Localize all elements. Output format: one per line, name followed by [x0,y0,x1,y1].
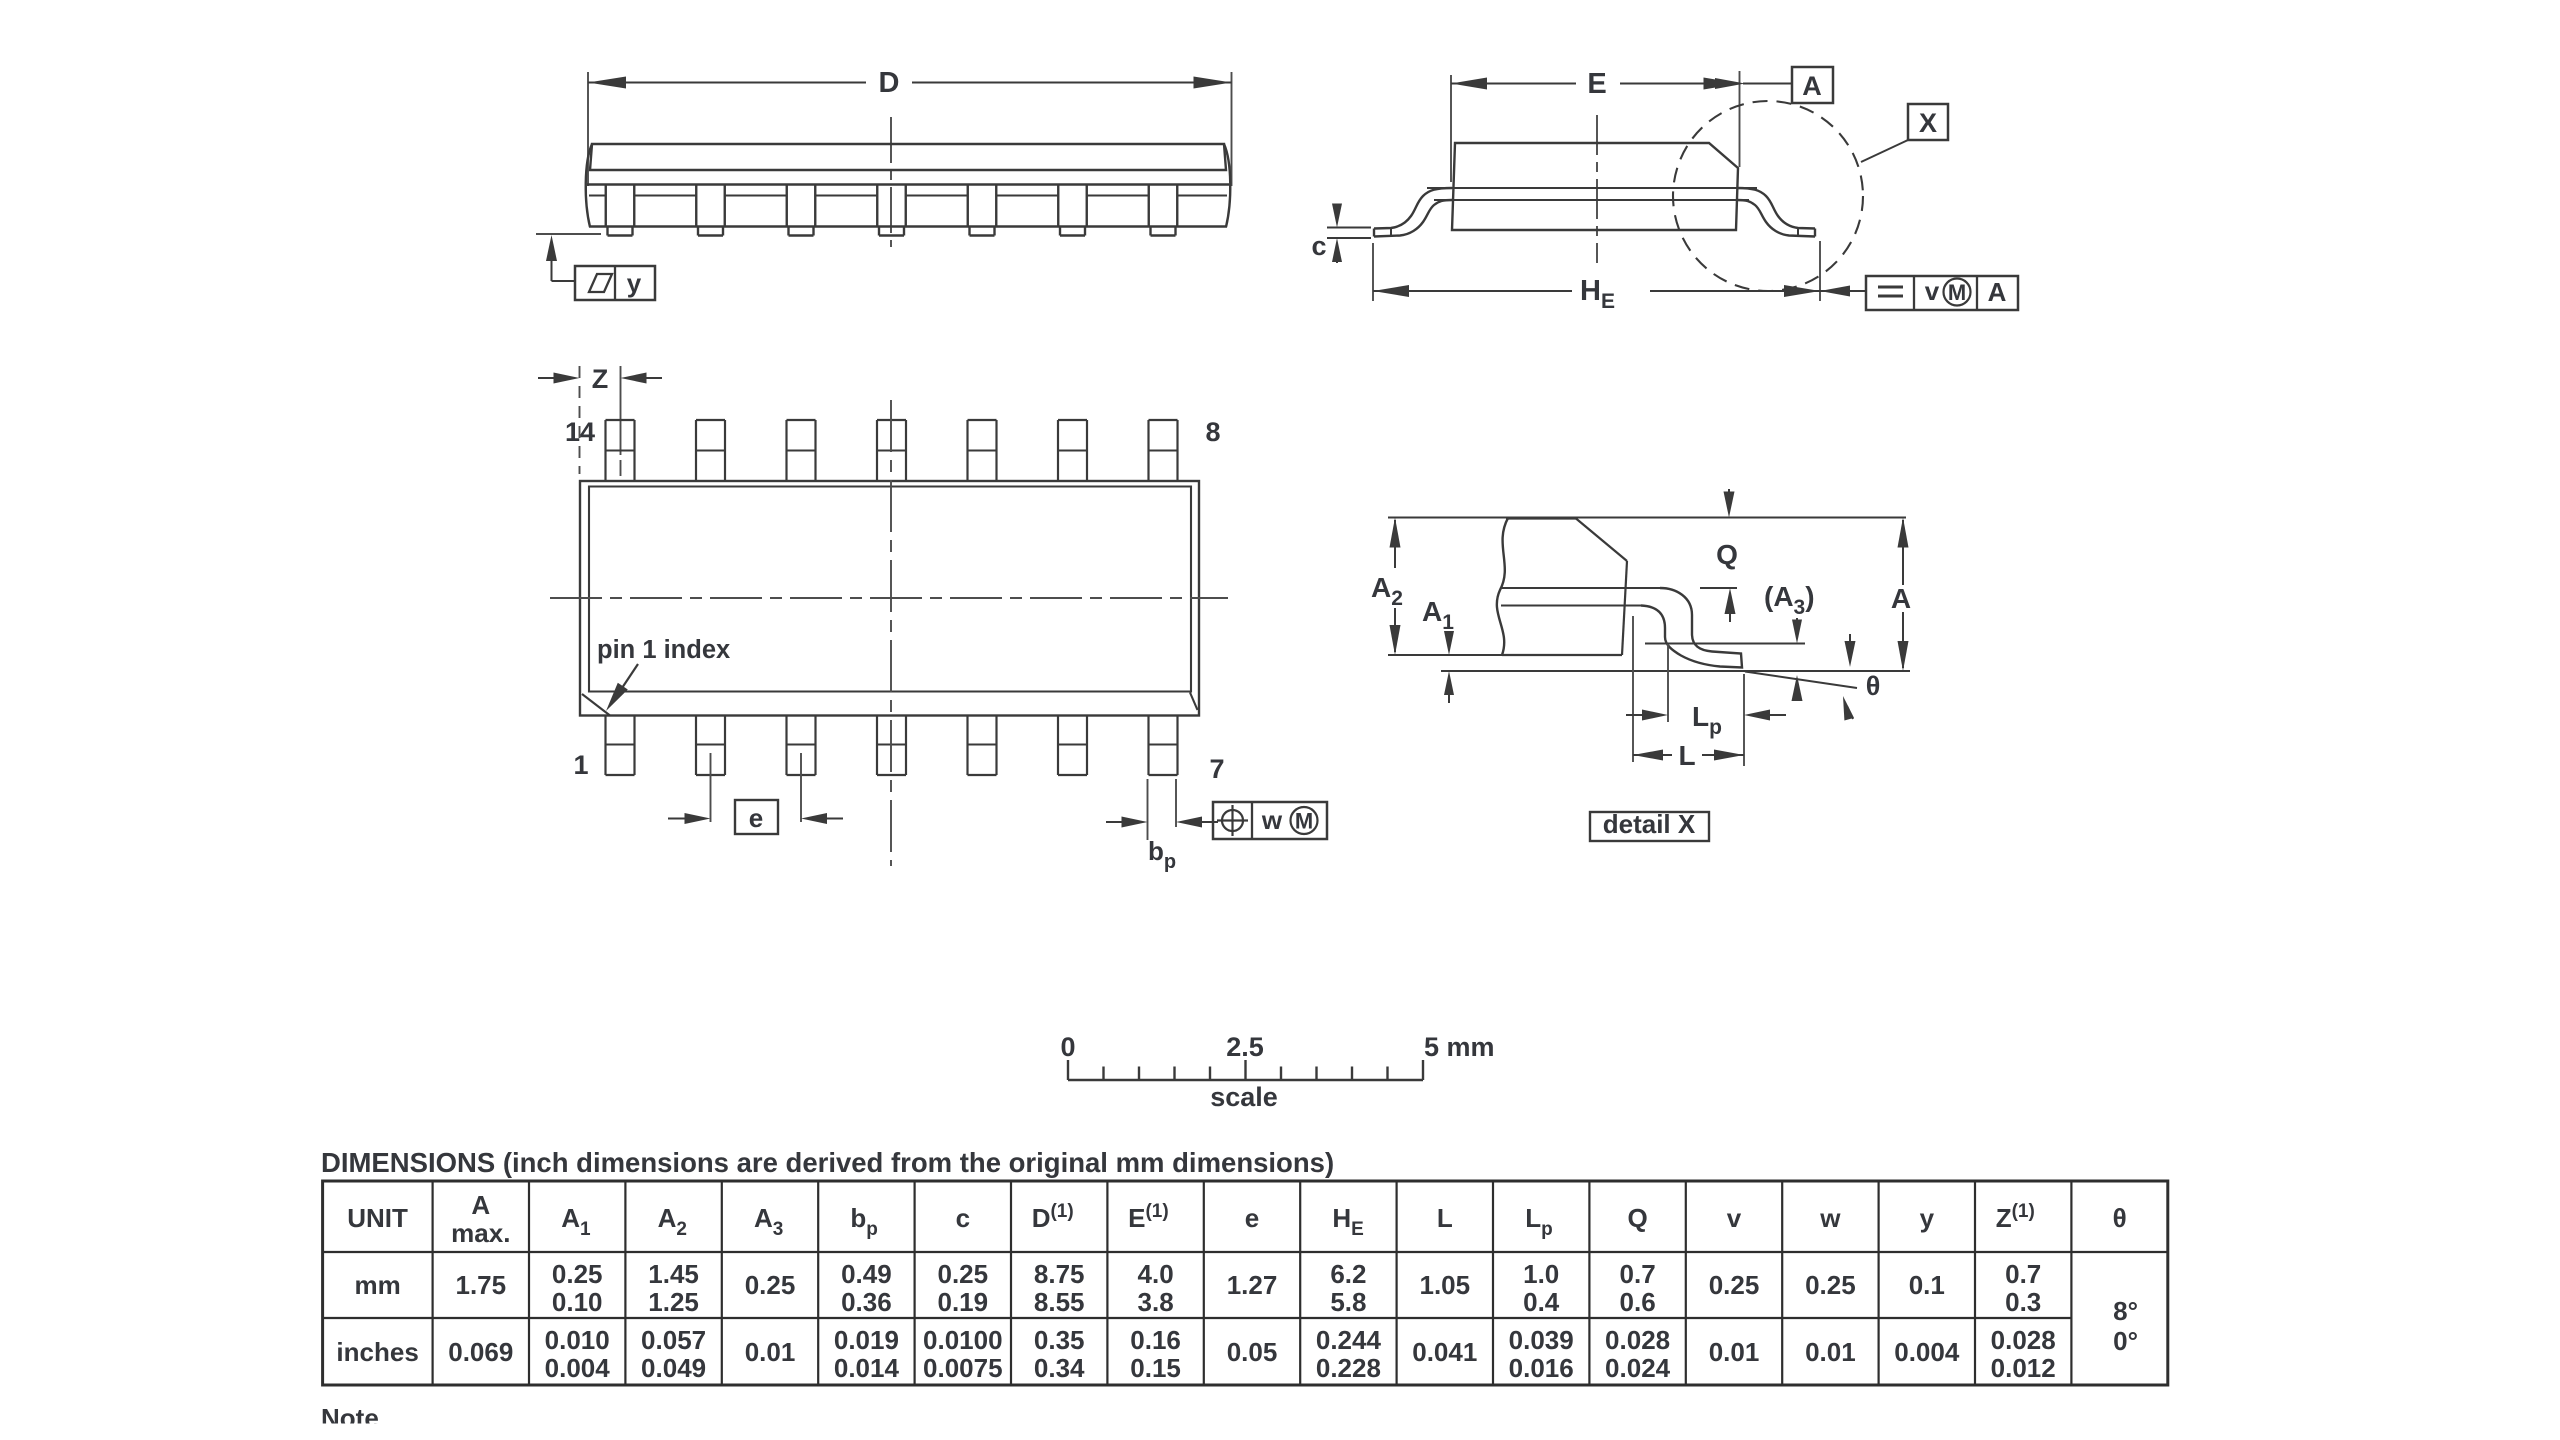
svg-text:0.069: 0.069 [448,1337,513,1367]
svg-text:1.75: 1.75 [455,1270,506,1300]
svg-text:0.01: 0.01 [1709,1337,1760,1367]
top view: top pin 10 [966,420,968,481]
end view: HE left extension line [1372,243,1374,301]
end view: datum A leader line [1743,83,1792,85]
svg-text:0.6: 0.6 [1620,1287,1656,1317]
detail X: A dimension line [1902,520,1904,585]
detail X: Q reference line extension [1700,587,1737,589]
svg-text:0.25: 0.25 [1805,1270,1856,1300]
end view: lead frame upper line [1427,187,1757,189]
svg-text:0.0075: 0.0075 [923,1353,1003,1383]
side view: D dimension line with arrowheads [588,82,866,84]
svg-text:Q: Q [1716,539,1738,570]
detail X: body top edge [1506,517,1576,519]
detail X: L extension line left [1632,616,1634,762]
svg-text:A: A [1988,277,2007,307]
svg-text:0.004: 0.004 [545,1353,611,1383]
detail X: arrow to seating plane [1849,634,1851,652]
svg-text:0.014: 0.014 [834,1353,900,1383]
svg-text:c: c [956,1203,970,1233]
svg-text:D: D [879,67,900,99]
svg-text:θ: θ [2113,1203,2127,1233]
svg-text:8: 8 [1205,417,1220,447]
svg-text:8.75: 8.75 [1034,1259,1085,1289]
svg-text:e: e [749,803,763,833]
detail X: lead outline (bend and foot) [1641,588,1742,668]
detail X: body bottom reference line [1388,654,1622,656]
detail X: Lp extension line left [1667,644,1669,722]
svg-text:0.028: 0.028 [1605,1325,1670,1355]
top view: body outer rectangle [580,481,1199,716]
svg-text:0.01: 0.01 [745,1337,796,1367]
svg-text:0.244: 0.244 [1316,1325,1382,1355]
detail X: Q upper arrow [1728,489,1730,505]
top view: e label box [735,800,778,834]
detail X: L dimension line [1633,750,1663,761]
top view: top pin 12 [785,420,787,481]
svg-text:E: E [1587,68,1606,100]
detail X: A1 dimension arrows [1448,633,1450,644]
svg-text:8°: 8° [2113,1296,2138,1326]
detail X: body right edge [1622,561,1627,655]
svg-text:max.: max. [451,1218,510,1248]
svg-text:L: L [1437,1203,1453,1233]
svg-text:θ: θ [1866,671,1881,701]
end view: HE dimension line [1373,290,1572,292]
svg-text:0.3: 0.3 [2005,1287,2041,1317]
top view: top pin 9 [1057,420,1059,481]
side view: lead shoulder line segments [589,195,606,197]
scale bar baseline [1068,1079,1423,1081]
top view: bp extension lines [1147,779,1149,840]
detail X: lead upper line in body [1501,587,1660,589]
end view: E dimension left extension line [1450,75,1452,182]
side view: lead 6 [1057,185,1059,227]
side view: package body top band (trapezoid) [590,144,1226,170]
detail X: arrow up to sloped line [1792,675,1803,701]
svg-text:M: M [1948,280,1966,305]
side view: body right end profile [1224,144,1230,227]
svg-text:0.35: 0.35 [1034,1325,1085,1355]
top view: bottom pin 6 [1057,716,1059,776]
top view: Z dimension right extension line [620,366,622,455]
detail X: seating plane line [1441,670,1910,672]
svg-text:0.028: 0.028 [1991,1325,2056,1355]
svg-text:y: y [627,268,642,298]
end view: body outline [1452,143,1738,230]
svg-text:0.34: 0.34 [1034,1353,1085,1383]
side view: seating datum line for y [536,233,601,235]
svg-text:c: c [1311,231,1326,261]
end view: datum A box [1792,67,1833,103]
detail X: slanted arrow below theta line [1847,706,1853,719]
top view: body inner rectangle [589,487,1191,692]
scale bar ticks [1067,1060,1069,1080]
svg-text:A: A [471,1190,490,1220]
svg-text:0.25: 0.25 [745,1270,796,1300]
svg-text:bp: bp [1148,836,1176,873]
top view: e dimension arrows [668,818,698,820]
svg-text:Lp: Lp [1692,701,1722,739]
svg-text:A1: A1 [561,1203,591,1240]
detail X: body bottom edge [1502,654,1622,656]
svg-text:UNIT: UNIT [347,1203,408,1233]
svg-text:0.10: 0.10 [552,1287,603,1317]
svg-text:Lp: Lp [1525,1203,1553,1240]
top view: e dimension extension lines [710,753,712,822]
end view: vertical centerline [1596,115,1598,263]
detail X: L/Lp extension line right [1743,674,1745,766]
top view: pin1 corner bevel [582,694,610,716]
detail X: package top reference line [1388,517,1906,519]
side view: D dimension right extension line [1231,72,1233,186]
svg-text:3.8: 3.8 [1138,1287,1174,1317]
end view: left lead (gull wing) [1374,188,1452,229]
top view: bottom pin 1 [604,716,606,776]
top view: bp dimension arrows [1106,821,1135,823]
svg-text:2.5: 2.5 [1226,1032,1264,1062]
detail X: (A3) arrow [1796,618,1798,631]
svg-text:A2: A2 [658,1203,687,1240]
svg-text:Q: Q [1627,1203,1647,1233]
svg-text:e: e [1245,1203,1259,1233]
side view: lead 5 [967,185,969,227]
svg-text:0.15: 0.15 [1130,1353,1181,1383]
svg-text:Z(1): Z(1) [1996,1201,2035,1233]
svg-text:0.16: 0.16 [1130,1325,1181,1355]
svg-text:0.019: 0.019 [834,1325,899,1355]
svg-text:5 mm: 5 mm [1424,1032,1495,1062]
end view: E dimension line with arrowheads [1451,83,1576,85]
svg-text:0.01: 0.01 [1805,1337,1856,1367]
svg-text:w: w [1819,1203,1841,1233]
top view: circled M for w [1291,807,1318,834]
svg-text:0: 0 [1060,1032,1075,1062]
side view: vertical centerline [890,117,892,247]
svg-text:7: 7 [1209,754,1224,784]
svg-text:scale: scale [1210,1082,1278,1112]
top view: pin7 corner bevel [1190,693,1198,711]
svg-text:D(1): D(1) [1032,1201,1074,1233]
svg-text:1: 1 [573,750,588,780]
svg-text:HE: HE [1580,275,1615,313]
svg-text:0.49: 0.49 [841,1259,892,1289]
top view: bottom pin 5 [966,716,968,776]
top view: top pin 11 [876,420,878,481]
svg-text:A1: A1 [1422,596,1454,634]
detail X: body section wavy break edge [1497,518,1508,655]
svg-text:DIMENSIONS (inch dimensions ar: DIMENSIONS (inch dimensions are derived … [321,1147,1334,1178]
side view: lead 1 [605,185,607,227]
end view: v tolerance feature frame [1866,276,2018,310]
svg-text:A2: A2 [1371,572,1403,610]
top view: position symbol [1222,810,1243,831]
svg-text:0.4: 0.4 [1523,1287,1560,1317]
detail X: theta sloped line [1745,672,1857,689]
side view: y datum leader arrow [551,250,553,281]
svg-text:8.55: 8.55 [1034,1287,1085,1317]
svg-text:0.25: 0.25 [552,1259,603,1289]
top view: vertical centerline [890,400,892,866]
svg-text:HE: HE [1332,1203,1363,1240]
svg-text:0.0100: 0.0100 [923,1325,1003,1355]
svg-text:v: v [1925,276,1940,306]
svg-text:0.7: 0.7 [1620,1259,1656,1289]
svg-text:0.1: 0.1 [1909,1270,1945,1300]
detail X: lead lower line in body [1501,605,1641,607]
detail X: detail X label box [1590,812,1709,841]
end view: HE right extension line [1819,241,1821,301]
end view: c dimension arrows [1336,204,1338,219]
top view: horizontal centerline [550,597,1228,599]
top view: bottom pin 2 [695,716,697,776]
svg-text:L: L [1678,740,1695,771]
end view: right lead (gull wing) [1737,188,1815,229]
svg-text:0.228: 0.228 [1316,1353,1381,1383]
svg-text:0.36: 0.36 [841,1287,892,1317]
svg-text:Z: Z [592,364,609,394]
side view: body lower edge (lead attach line) [587,183,1229,185]
detail X: A2 dimension line [1394,520,1396,568]
svg-text:detail X: detail X [1603,809,1696,839]
svg-text:0.7: 0.7 [2005,1259,2041,1289]
svg-text:5.8: 5.8 [1330,1287,1366,1317]
svg-text:1.45: 1.45 [648,1259,699,1289]
end view: X leader line [1861,140,1908,162]
detail X: (A3) reference line [1645,643,1805,645]
svg-text:0.041: 0.041 [1412,1337,1477,1367]
svg-text:6.2: 6.2 [1330,1259,1366,1289]
end view: c dimension reference lines [1327,227,1371,229]
svg-text:0.024: 0.024 [1605,1353,1671,1383]
end view: detail X label box [1908,104,1948,140]
svg-text:bp: bp [850,1203,878,1240]
svg-text:0.057: 0.057 [641,1325,706,1355]
end view: lead frame lower line [1434,199,1749,201]
end view: leader to tolerance frame [1820,290,1866,292]
svg-text:0°: 0° [2113,1326,2138,1356]
svg-text:w: w [1261,805,1283,835]
side view: lead 4 [876,185,878,227]
detail X: Q lower arrow [1725,588,1736,614]
end view: E dimension right extension line [1739,71,1741,167]
svg-text:0.25: 0.25 [937,1259,988,1289]
svg-text:M: M [1295,809,1313,834]
svg-text:y: y [1920,1203,1935,1233]
end view: detail X dashed circle [1673,101,1863,291]
svg-text:1.27: 1.27 [1227,1270,1278,1300]
svg-text:X: X [1919,108,1937,138]
svg-text:0.039: 0.039 [1509,1325,1574,1355]
svg-text:E(1): E(1) [1128,1201,1169,1233]
table column lines [432,1181,434,1385]
svg-text:A: A [1891,583,1911,614]
end view: circled M [1944,279,1971,306]
svg-text:mm: mm [354,1270,400,1300]
top view: Z dimension dashed extension line [579,366,581,474]
side view: parallelogram symbol [589,274,612,292]
svg-text:0.05: 0.05 [1227,1337,1278,1367]
svg-text:A: A [1802,71,1822,101]
top view: top pin 8 [1147,420,1149,481]
svg-text:pin 1 index: pin 1 index [597,636,730,664]
top view: pin 1 index arrow [614,664,638,700]
side view: lead 3 [786,185,788,227]
side view: lead 2 [695,185,697,227]
svg-text:1.0: 1.0 [1523,1259,1559,1289]
svg-text:4.0: 4.0 [1138,1259,1174,1289]
svg-text:0.016: 0.016 [1509,1353,1574,1383]
svg-text:inches: inches [336,1337,418,1367]
top view: Z dimension arrows [538,377,567,379]
top view: bottom pin 4 [876,716,878,776]
svg-text:0.049: 0.049 [641,1353,706,1383]
side view: body left end profile [586,144,592,227]
svg-text:v: v [1727,1203,1742,1233]
svg-text:0.004: 0.004 [1894,1337,1960,1367]
top view: top pin 14 [604,420,606,481]
svg-text:0.012: 0.012 [1991,1353,2056,1383]
svg-text:0.25: 0.25 [1709,1270,1760,1300]
detail X: Lp dimension arrows [1626,714,1655,716]
side view: D dimension left extension line [587,72,589,186]
svg-text:14: 14 [565,417,595,447]
top view: position tolerance frame [1213,802,1327,839]
detail X: body chamfer corner [1576,519,1627,562]
svg-text:1.25: 1.25 [648,1287,699,1317]
svg-text:(A3): (A3) [1764,581,1815,619]
end view: seating plane symbol [1878,286,1903,289]
top view: top pin 13 [695,420,697,481]
side view: lead 7 [1148,185,1150,227]
table row lines [323,1251,2168,1253]
top view: bottom pin 3 [785,716,787,776]
side view: y flatness feature frame [575,266,655,300]
side view: body bottom line behind leads [589,225,1227,227]
svg-text:0.19: 0.19 [937,1287,988,1317]
svg-text:1.05: 1.05 [1419,1270,1470,1300]
svg-text:A3: A3 [754,1203,783,1240]
svg-text:0.010: 0.010 [545,1325,610,1355]
table outer border [323,1181,2168,1385]
top view: bottom pin 7 [1147,716,1149,776]
